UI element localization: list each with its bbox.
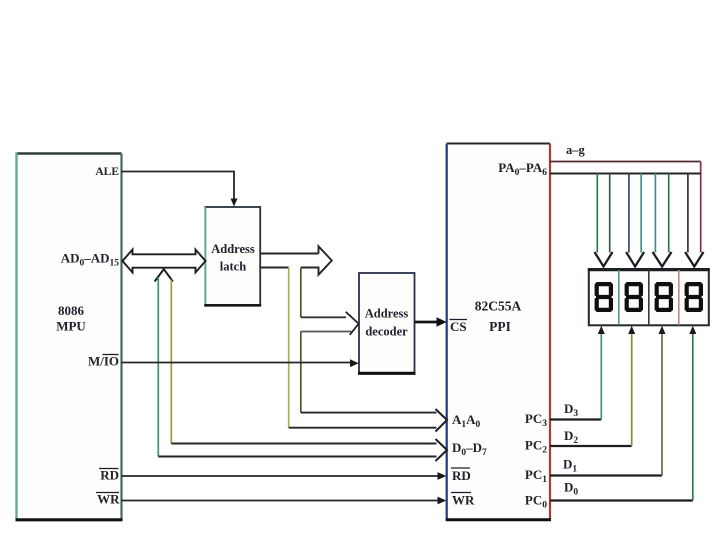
pin label RD (PPI) with overbar bbox=[451, 468, 471, 483]
bus latch output: shaft and right fat arrow bbox=[260, 246, 332, 274]
svg-text:decoder: decoder bbox=[365, 325, 408, 339]
7-segment digit DS2 bbox=[625, 282, 643, 312]
svg-text:Address: Address bbox=[211, 242, 255, 256]
wire PA segment bus comb line bbox=[550, 173, 701, 175]
pin label WR with overbar bbox=[96, 492, 120, 507]
wire segment drop 3 bbox=[653, 174, 672, 267]
wire address vertical left (yellow-green) bbox=[288, 268, 290, 428]
wire M/IO to decoder bbox=[122, 359, 359, 367]
bus A1A0 into PPI bbox=[289, 409, 447, 432]
svg-text:RD: RD bbox=[100, 468, 119, 483]
svg-text:CS: CS bbox=[450, 319, 467, 334]
wire D3 (PC3 to display 1) bbox=[550, 326, 605, 420]
svg-text:M/IO: M/IO bbox=[88, 354, 119, 369]
svg-text:a–g: a–g bbox=[566, 143, 586, 157]
wire segment drop 1 bbox=[595, 174, 613, 267]
bus up-arrow from data bus into AD bus bbox=[155, 269, 173, 281]
wire segment drop 2 bbox=[626, 174, 644, 267]
address latch U2 bbox=[204, 207, 261, 305]
bus D0-D7 into PPI bbox=[158, 439, 447, 461]
svg-text:RD: RD bbox=[452, 468, 471, 483]
7-segment digit DS4 bbox=[685, 282, 703, 312]
bus AD0-AD15 bidirectional arrow bbox=[123, 250, 206, 273]
wire data-bus vertical left (teal) bbox=[157, 277, 159, 457]
7-segment display module frame bbox=[588, 269, 710, 325]
svg-text:ALE: ALE bbox=[95, 166, 119, 178]
wire D0 (PC0 to display 4) bbox=[550, 326, 696, 501]
svg-text:82C55A: 82C55A bbox=[475, 299, 522, 314]
pin label WR (PPI) with overbar bbox=[451, 493, 475, 508]
wire data-bus vertical right (olive) bbox=[170, 280, 172, 444]
7-segment digit DS1 bbox=[595, 282, 613, 312]
7-segment digit DS3 bbox=[655, 282, 673, 312]
svg-text:PPI: PPI bbox=[489, 319, 511, 334]
wire a-g top line (to right edge, red) bbox=[550, 162, 701, 253]
pin label RD with overbar bbox=[99, 468, 119, 483]
wire RD to PPI bbox=[122, 472, 447, 480]
82C55A PPI block U4 bbox=[446, 144, 551, 520]
pin label M/IO with overbar on IO bbox=[88, 354, 119, 369]
wire segment drop 4 bbox=[685, 174, 703, 267]
bus address into decoder bbox=[301, 312, 359, 335]
wire address vertical right (dark olive) bbox=[300, 268, 302, 413]
svg-text:WR: WR bbox=[97, 492, 120, 507]
wire ALE to latch bbox=[122, 172, 238, 207]
pin label CS with overbar bbox=[450, 319, 468, 334]
wire WR to PPI bbox=[122, 497, 447, 505]
svg-text:WR: WR bbox=[452, 493, 475, 508]
wire D2 (PC2 to display 2) bbox=[550, 326, 635, 446]
wire CS decoder to PPI (thick) bbox=[415, 317, 447, 326]
svg-text:8086: 8086 bbox=[58, 303, 85, 318]
svg-text:Address: Address bbox=[365, 307, 409, 321]
address decoder U3 bbox=[358, 273, 416, 373]
svg-text:latch: latch bbox=[220, 260, 246, 274]
8086 MPU block U1 bbox=[16, 153, 123, 520]
svg-text:MPU: MPU bbox=[56, 319, 86, 334]
wire D1 (PC1 to display 3) bbox=[550, 326, 666, 476]
